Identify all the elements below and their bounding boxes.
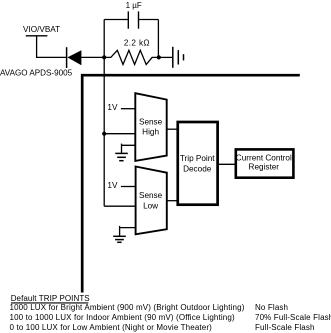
wire Sense High ground pin bbox=[122, 144, 136, 153]
svg-text:Current Control: Current Control bbox=[236, 154, 292, 163]
svg-text:No Flash: No Flash bbox=[255, 303, 288, 312]
svg-text:Sense: Sense bbox=[139, 118, 163, 127]
svg-text:Low: Low bbox=[143, 201, 158, 210]
capacitor 1uF bbox=[104, 1, 158, 29]
block Trip Point Decode bbox=[178, 122, 218, 205]
wire Sense Low ground pin bbox=[120, 226, 136, 236]
svg-text:1000 LUX for Bright Ambient (9: 1000 LUX for Bright Ambient (900 mV) (Br… bbox=[10, 303, 245, 312]
comparator Sense Low bbox=[136, 167, 167, 235]
svg-text:Default TRIP POINTS: Default TRIP POINTS bbox=[11, 294, 90, 303]
svg-text:Register: Register bbox=[249, 162, 280, 171]
svg-text:2.2 kΩ: 2.2 kΩ bbox=[124, 38, 150, 47]
svg-text:Trip Point: Trip Point bbox=[180, 154, 215, 163]
diode bbox=[67, 47, 82, 68]
wire Trip Point Decode to Current Control Register bbox=[218, 163, 236, 165]
svg-text:0 to 100 LUX for Low Ambient (: 0 to 100 LUX for Low Ambient (Night or M… bbox=[10, 323, 213, 332]
ground (Sense High) bbox=[115, 153, 128, 160]
APDS-9005 package outline (thick top and left edges) bbox=[82, 75, 300, 292]
node C junction dot bbox=[102, 132, 106, 136]
node A junction dot bbox=[102, 55, 106, 59]
svg-text:1V: 1V bbox=[107, 103, 118, 112]
wire node B to ground bbox=[158, 56, 172, 58]
svg-text:100 to 1000 LUX for Indoor Amb: 100 to 1000 LUX for Indoor Ambient (90 m… bbox=[10, 313, 235, 322]
svg-text:AVAGO APDS-9005: AVAGO APDS-9005 bbox=[0, 69, 73, 78]
svg-text:Sense: Sense bbox=[139, 191, 163, 200]
note: Default TRIP POINTS heading bbox=[10, 294, 331, 332]
wire node C to Sense High input bbox=[104, 133, 135, 135]
svg-text:Decode: Decode bbox=[183, 165, 212, 174]
wire node C down and into Sense Low input bbox=[104, 205, 135, 207]
ground (Sense Low) bbox=[113, 236, 126, 242]
svg-text:Full-Scale Flash: Full-Scale Flash bbox=[255, 323, 315, 332]
svg-text:1 µF: 1 µF bbox=[126, 1, 142, 10]
wire Sense High output to Trip Point Decode bbox=[167, 128, 178, 130]
net VIO/VBAT bbox=[23, 25, 60, 36]
wire node A down into package bbox=[103, 57, 105, 206]
wire from VIO/VBAT down to diode bbox=[37, 36, 66, 58]
wire 1V to Sense High bbox=[121, 108, 135, 110]
svg-text:High: High bbox=[142, 127, 159, 136]
wire node A up to capacitor bbox=[103, 20, 105, 58]
resistor 2.2 kOhm bbox=[104, 38, 158, 64]
svg-text:70% Full-Scale Flash: 70% Full-Scale Flash bbox=[255, 313, 331, 322]
comparator Sense High bbox=[135, 93, 166, 161]
svg-text:1V: 1V bbox=[107, 181, 118, 190]
node B junction dot bbox=[157, 55, 161, 59]
svg-text:VIO/VBAT: VIO/VBAT bbox=[23, 25, 60, 34]
block Current Control Register bbox=[236, 149, 294, 177]
wire capacitor right down to node B bbox=[157, 20, 159, 58]
wire from diode to node A bbox=[81, 56, 104, 58]
wire 1V to Sense Low bbox=[121, 186, 136, 188]
ground (sideways) bbox=[173, 47, 184, 68]
wire Sense Low output to Trip Point Decode bbox=[167, 200, 178, 202]
